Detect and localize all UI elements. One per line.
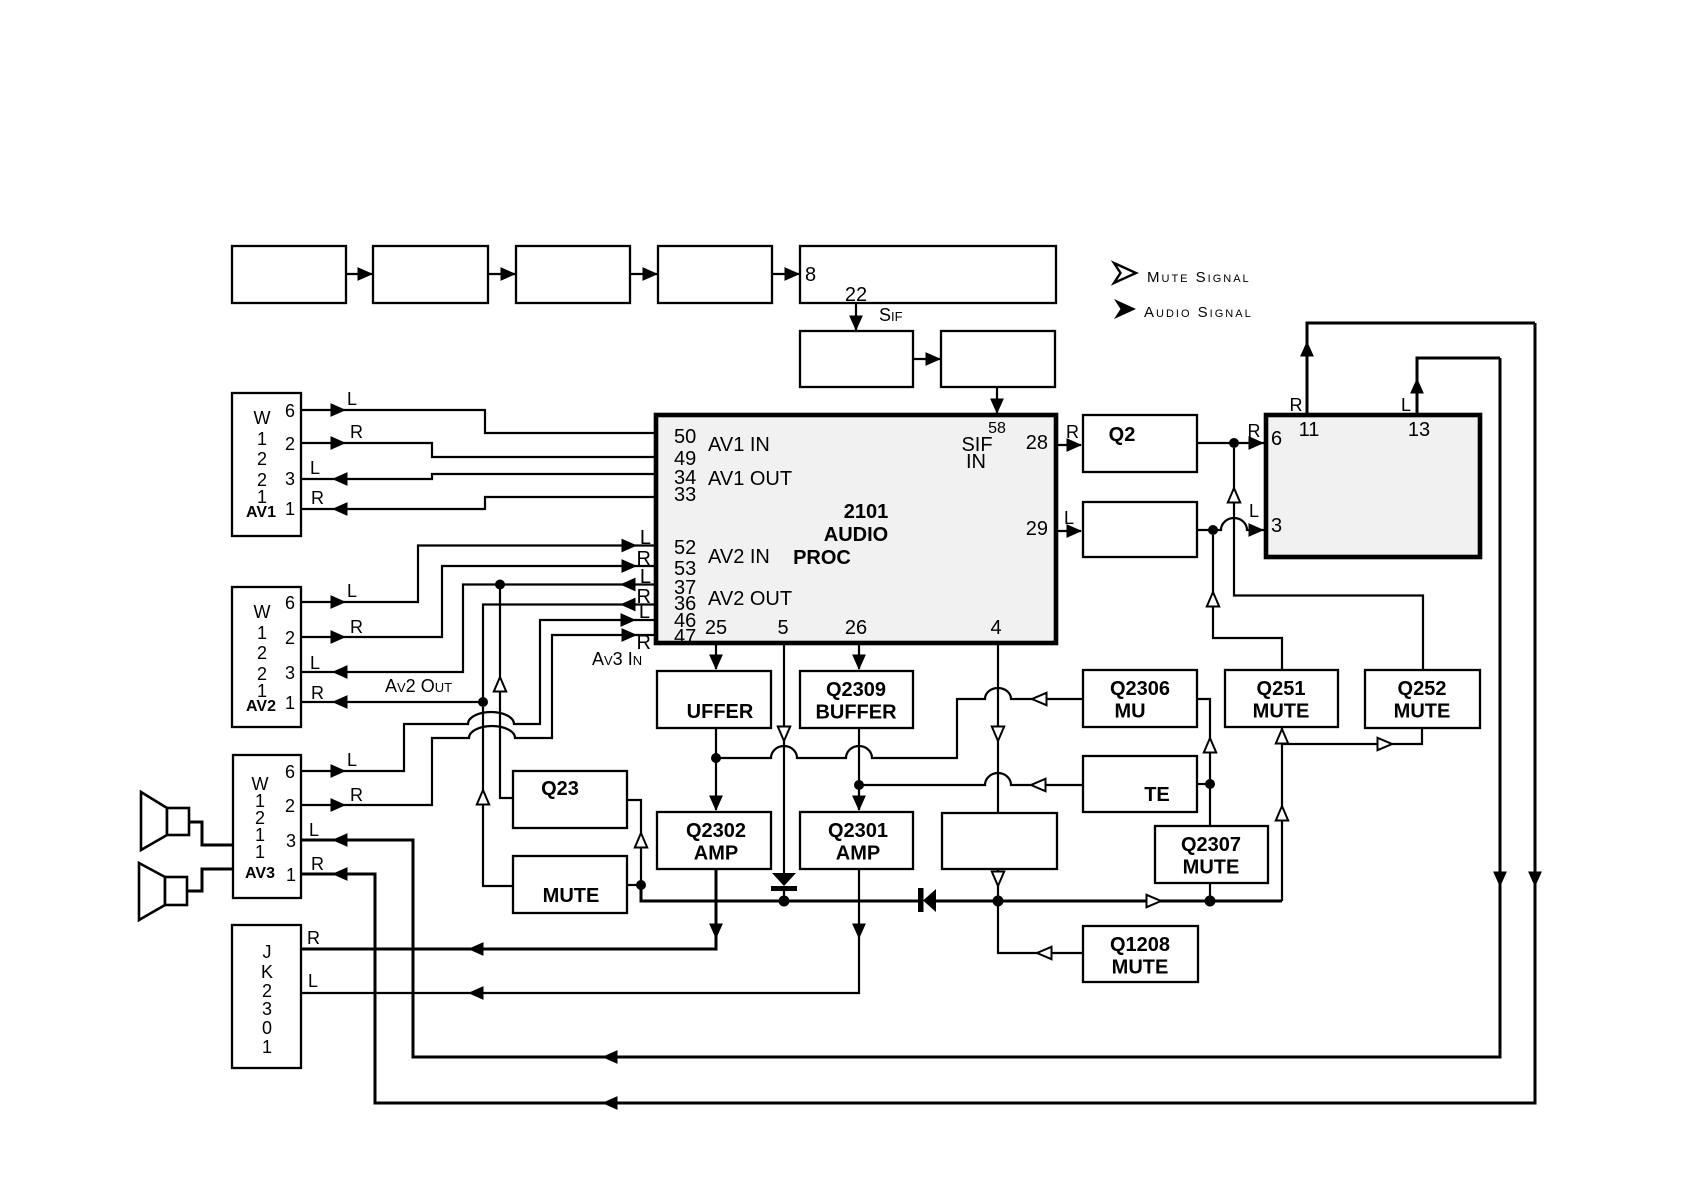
block G (SIF amp) xyxy=(941,331,1055,387)
wire G to U2101 pin 58 xyxy=(990,387,1004,414)
svg-text:L: L xyxy=(310,653,320,673)
wire B to C xyxy=(488,273,516,275)
svg-text:Mute Signal: Mute Signal xyxy=(1147,269,1251,286)
svg-text:W: W xyxy=(254,408,271,428)
wire U2 pin 13 L output up xyxy=(1401,358,1500,415)
svg-text:13: 13 xyxy=(1408,419,1430,441)
svg-text:3: 3 xyxy=(1271,515,1282,537)
wire U2101 pin 34 to AV1 pin3 L xyxy=(301,458,656,486)
svg-text:8: 8 xyxy=(805,264,816,286)
node on pin36 wire xyxy=(478,697,488,707)
wire AV1 pin6 L to U2101 pin 50 xyxy=(301,389,656,433)
node on pin37 wire xyxy=(495,580,505,590)
wire D to E (pin 8) xyxy=(772,273,800,275)
svg-text:29: 29 xyxy=(1026,518,1048,540)
svg-text:3: 3 xyxy=(285,469,295,489)
svg-text:IN: IN xyxy=(966,451,986,473)
svg-text:4: 4 xyxy=(990,617,1001,639)
svg-text:Q2: Q2 xyxy=(1109,424,1136,446)
wire SP2 to AV3 xyxy=(187,869,233,891)
svg-text:AV1 IN: AV1 IN xyxy=(708,434,770,456)
wire headphone block to mute bus xyxy=(992,869,1004,901)
svg-text:33: 33 xyxy=(674,484,696,506)
wire TE out to Q2309 node (hops pin4 line) xyxy=(859,773,1083,791)
wire Q23 out to MUTE node xyxy=(627,800,647,885)
svg-text:AV2 OUT: AV2 OUT xyxy=(708,588,792,610)
svg-text:L: L xyxy=(640,566,651,588)
svg-text:47: 47 xyxy=(674,626,696,648)
svg-text:AUDIO: AUDIO xyxy=(824,524,888,546)
svg-text:Q2306: Q2306 xyxy=(1110,678,1170,700)
wire U2101 pin 29 L to L amp xyxy=(1056,508,1082,538)
svg-text:5: 5 xyxy=(777,617,788,639)
wire F to G xyxy=(913,352,941,366)
svg-text:MUTE: MUTE xyxy=(1183,857,1240,879)
svg-text:AV3: AV3 xyxy=(245,865,275,882)
connector W1211 AV3 xyxy=(233,755,301,898)
wire U2101 pin 25 to buffer xyxy=(709,643,723,670)
wire U2101 pin 26 to Q2309 xyxy=(852,643,866,670)
svg-text:Q23: Q23 xyxy=(541,778,579,800)
legend mute signal arrow xyxy=(1114,263,1251,286)
transistor TE (mute) xyxy=(1083,756,1197,812)
svg-text:1: 1 xyxy=(285,693,295,713)
transistor Q2309 BUFFER xyxy=(800,671,913,728)
svg-text:Q2309: Q2309 xyxy=(826,679,886,701)
svg-text:3: 3 xyxy=(262,999,272,1019)
svg-text:MUTE: MUTE xyxy=(543,885,600,907)
svg-text:L: L xyxy=(1064,508,1074,528)
wire U2101 pin 4 to headphone block xyxy=(992,643,1004,813)
transistor Q2307 MUTE xyxy=(1155,826,1268,883)
svg-text:MUTE: MUTE xyxy=(1253,701,1310,723)
transistor Q251 MUTE xyxy=(1225,670,1338,727)
svg-text:BUFFER: BUFFER xyxy=(815,702,897,724)
node UFFER/mute junction xyxy=(711,753,721,763)
connector W1221 AV1 xyxy=(232,393,301,536)
block headphone amp (unlabeled) xyxy=(942,813,1057,869)
wire U2101 pin 28 R to Q2 xyxy=(1056,422,1082,452)
node R mute tap xyxy=(1229,438,1239,448)
wire C to D xyxy=(630,273,658,275)
svg-text:26: 26 xyxy=(845,617,867,639)
wire node to Q23 (mute line) xyxy=(494,589,513,798)
svg-text:L: L xyxy=(639,601,650,623)
block L amp (unlabeled) xyxy=(1083,502,1197,557)
wire Q2306 right to TE node xyxy=(1197,699,1216,784)
wire pin 22 to block F (SIF) xyxy=(849,303,863,331)
wire Q1208 MUTE to mute bus node xyxy=(998,906,1083,959)
svg-text:1: 1 xyxy=(286,865,296,885)
transistor Q2306 MU xyxy=(1083,670,1197,727)
block UFFER (buffer) xyxy=(657,671,771,728)
svg-text:AMP: AMP xyxy=(836,843,880,865)
mute bus wire continues to Q251 riser xyxy=(936,895,1282,907)
svg-text:AV2 IN: AV2 IN xyxy=(708,546,770,568)
svg-text:PROC: PROC xyxy=(793,547,851,569)
svg-text:L: L xyxy=(347,750,357,770)
svg-text:R: R xyxy=(1066,422,1079,442)
svg-text:R: R xyxy=(311,854,324,874)
svg-text:AV2: AV2 xyxy=(246,698,276,715)
transistor Q1208 MUTE xyxy=(1083,926,1198,982)
svg-text:AV1 OUT: AV1 OUT xyxy=(708,468,792,490)
wire Q2309 out to Q2301 AMP xyxy=(852,728,866,811)
svg-text:28: 28 xyxy=(1026,432,1048,454)
svg-text:1: 1 xyxy=(255,842,265,862)
svg-text:3: 3 xyxy=(286,831,296,851)
svg-text:L: L xyxy=(1401,395,1411,415)
svg-text:52: 52 xyxy=(674,537,696,559)
wire AV3 pin6 L to U2101 pin 46 (hops over mute lines) xyxy=(301,601,654,778)
node TE/Q2307 riser on mute bus xyxy=(1205,896,1216,907)
svg-text:L: L xyxy=(308,971,318,991)
svg-text:6: 6 xyxy=(1271,428,1282,450)
wire U2101 pin 37 to AV2 pin3 L xyxy=(301,566,656,679)
wire UFFER out to Q2302 AMP xyxy=(709,728,723,811)
diode D1 (vertical, cathode to mute bus) xyxy=(771,873,797,901)
block A (tuner chain box 1) xyxy=(232,246,346,303)
svg-text:3: 3 xyxy=(285,663,295,683)
wire U2101 pin 5 to diode D1 xyxy=(778,643,790,874)
svg-text:Audio Signal: Audio Signal xyxy=(1144,304,1253,321)
svg-text:1: 1 xyxy=(285,499,295,519)
svg-text:Q1208: Q1208 xyxy=(1110,934,1170,956)
block MUTE xyxy=(513,856,627,913)
wire L amp out to U2 pin 3 L (hops R mute line) xyxy=(1197,501,1264,537)
wire Q252/L-feedback to AV3 pin3 L xyxy=(301,358,1507,1064)
svg-text:Q252: Q252 xyxy=(1398,678,1447,700)
svg-text:R: R xyxy=(311,683,324,703)
svg-text:Av3 In: Av3 In xyxy=(592,649,642,669)
node D1/mute bus junction xyxy=(779,896,790,907)
svg-text:6: 6 xyxy=(285,593,295,613)
wire MUTE node to mute bus xyxy=(641,885,784,901)
wire R mute tap to Q252 top xyxy=(1228,448,1423,670)
svg-text:50: 50 xyxy=(674,426,696,448)
block F (SIF filter) xyxy=(800,331,913,387)
wire mute bus riser to Q251 bottom xyxy=(1276,727,1288,901)
svg-text:2: 2 xyxy=(262,981,272,1001)
block Q2 xyxy=(1083,415,1197,472)
op-amp U2 (output IC) xyxy=(1266,415,1480,557)
node L mute tap xyxy=(1208,525,1218,535)
svg-text:6: 6 xyxy=(285,401,295,421)
svg-text:L: L xyxy=(1249,501,1259,521)
node TE junction xyxy=(1205,779,1215,789)
block D (tuner chain box 4) xyxy=(658,246,772,303)
svg-text:L: L xyxy=(347,581,357,601)
node Q23/MUTE junction xyxy=(636,880,646,890)
svg-text:2: 2 xyxy=(257,449,267,469)
block E (IF block, pin 8 / pin 22) xyxy=(800,246,1056,303)
svg-text:R: R xyxy=(350,785,363,805)
svg-text:R: R xyxy=(311,488,324,508)
svg-text:2: 2 xyxy=(285,628,295,648)
svg-text:MUTE: MUTE xyxy=(1112,957,1169,979)
svg-text:Q251: Q251 xyxy=(1257,678,1306,700)
wire L mute tap to Q251 top xyxy=(1207,535,1282,670)
svg-text:W: W xyxy=(254,602,271,622)
svg-text:MU: MU xyxy=(1114,701,1145,723)
diode D2 (horizontal, cathode left) xyxy=(918,888,936,912)
wire Q2306 out to UFFER node (hops pin4 line) xyxy=(716,688,1083,758)
svg-text:1: 1 xyxy=(257,429,267,449)
svg-text:L: L xyxy=(640,527,651,549)
svg-text:Av2 Out: Av2 Out xyxy=(385,676,452,696)
wire Q2301 AMP out to JK2301 L xyxy=(301,869,866,1000)
wire Q2302 AMP out to JK2301 R xyxy=(301,869,723,956)
svg-text:UFFER: UFFER xyxy=(687,701,754,723)
svg-text:Sif: Sif xyxy=(879,305,903,325)
svg-text:25: 25 xyxy=(705,617,727,639)
svg-text:J: J xyxy=(263,942,272,962)
svg-text:R: R xyxy=(1290,395,1303,415)
wire Q2 out to U2 pin 6 R xyxy=(1197,421,1264,450)
svg-text:MUTE: MUTE xyxy=(1394,701,1451,723)
wire AV3 pin2 R to U2101 pin 47 (hops over mute lines) xyxy=(301,628,654,812)
svg-text:2: 2 xyxy=(257,643,267,663)
wire AV2 pin2 R to U2101 pin 53 xyxy=(301,548,656,644)
svg-text:2101: 2101 xyxy=(844,501,889,523)
wire TE right edge to node xyxy=(1197,783,1210,785)
wire node to Q2307 MUTE top xyxy=(1209,784,1211,826)
svg-text:1: 1 xyxy=(262,1037,272,1057)
speaker SP1 xyxy=(141,792,189,850)
label SIF IN xyxy=(961,434,992,473)
svg-text:L: L xyxy=(310,458,320,478)
wire U2101 pin 33 to AV1 pin1 R xyxy=(301,488,656,516)
svg-text:2: 2 xyxy=(285,796,295,816)
block C (tuner chain box 3) xyxy=(516,246,630,303)
svg-text:L: L xyxy=(347,389,357,409)
svg-text:22: 22 xyxy=(845,284,867,306)
svg-text:Q2301: Q2301 xyxy=(828,820,888,842)
wire U2 pin 11 R output up xyxy=(1290,323,1536,415)
wire SP1 to AV3 xyxy=(189,822,233,845)
svg-text:0: 0 xyxy=(262,1018,272,1038)
wire node to MUTE block (mute line) xyxy=(477,707,513,886)
svg-text:Q2302: Q2302 xyxy=(686,820,746,842)
wire Q2307 bottom to mute bus xyxy=(1209,883,1211,901)
block B (tuner chain box 2) xyxy=(373,246,488,303)
wire AV1 pin2 R to U2101 pin 49 xyxy=(301,422,656,457)
legend audio signal arrow xyxy=(1114,299,1253,321)
wire MUTE out xyxy=(627,884,641,886)
wire Q251/R-feedback to AV3 pin1 R xyxy=(301,323,1542,1110)
transistor Q2302 AMP xyxy=(657,812,771,869)
svg-text:TE: TE xyxy=(1144,784,1170,806)
svg-text:R: R xyxy=(350,617,363,637)
transistor Q2301 AMP xyxy=(800,812,913,869)
svg-text:L: L xyxy=(309,820,319,840)
svg-text:K: K xyxy=(261,962,273,982)
wire AV2 pin6 L to U2101 pin 52 xyxy=(301,527,656,609)
speaker SP2 xyxy=(139,863,187,920)
svg-text:AMP: AMP xyxy=(694,843,738,865)
svg-text:Q2307: Q2307 xyxy=(1181,834,1241,856)
svg-text:2: 2 xyxy=(285,434,295,454)
svg-text:6: 6 xyxy=(285,762,295,782)
mute bus wire xyxy=(784,900,918,903)
svg-text:R: R xyxy=(1248,421,1261,441)
transistor Q23 xyxy=(513,771,627,828)
node pin4 line/mute bus junction xyxy=(993,896,1004,907)
op-amp U2101 AUDIO PROC xyxy=(656,415,1056,643)
svg-text:1: 1 xyxy=(257,623,267,643)
svg-text:AV1: AV1 xyxy=(246,504,276,521)
connector JK2301 xyxy=(232,925,301,1068)
wire branch to Q252 bottom xyxy=(1282,727,1422,750)
node Q2309/mute junction xyxy=(854,780,864,790)
svg-text:R: R xyxy=(307,928,320,948)
connector W1221 AV2 xyxy=(232,587,301,727)
wire U2101 pin 36 to AV2 pin1 R xyxy=(301,586,656,709)
svg-text:11: 11 xyxy=(1299,419,1320,441)
wire A to B xyxy=(346,273,373,275)
svg-text:R: R xyxy=(350,422,363,442)
transistor Q252 MUTE xyxy=(1365,670,1480,728)
